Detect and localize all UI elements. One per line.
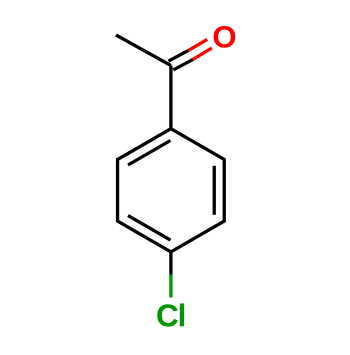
methyl C-C bond [116, 35, 171, 66]
ring double bond inner line (right edge) [213, 166, 216, 215]
C=O double bond upper line red half [188, 39, 207, 50]
C=O double bond lower line red half [193, 48, 212, 59]
C=O double bond lower line black half [173, 59, 193, 70]
ring double bond inner line (bottom-left edge) [128, 216, 170, 241]
C=O double bond upper line black half [169, 51, 189, 62]
C-Cl bond black half [169, 252, 172, 275]
atom label O [214, 26, 236, 48]
ring double bond inner line (top-left edge) [128, 141, 170, 166]
benzene ring C1-C6 [118, 129, 225, 252]
bond carbonyl C to ring [169, 66, 172, 129]
C-Cl bond green half [169, 275, 172, 298]
atom label Cl [157, 304, 178, 326]
